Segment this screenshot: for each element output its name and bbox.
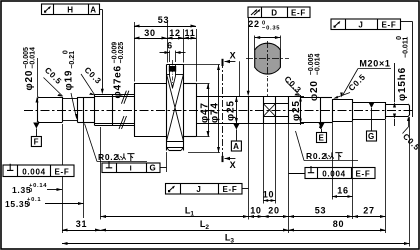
svg-text:φ47e6: φ47e6: [113, 65, 124, 98]
feature frame runout J E-F bottom: [166, 184, 243, 195]
bottom chain row L3: [62, 117, 410, 247]
phi25 section outline: [196, 97, 301, 124]
datum G: [367, 102, 377, 141]
feature frame runout J E-F: [331, 19, 401, 30]
svg-text:C0.5: C0.5: [401, 132, 420, 153]
note R0.2 max right: [296, 131, 359, 161]
svg-text:22: 22: [248, 19, 259, 29]
svg-text:H: H: [67, 6, 73, 15]
svg-text:53: 53: [315, 206, 326, 216]
svg-text:12: 12: [169, 28, 180, 38]
svg-text:G: G: [150, 164, 157, 173]
svg-text:80: 80: [333, 219, 344, 229]
svg-text:C0.5: C0.5: [347, 72, 368, 93]
phi20 section to shoulder: [78, 97, 95, 123]
extension groove to frame: [62, 124, 64, 165]
bottom chain extension lines: [101, 120, 386, 233]
svg-text:φ20: φ20: [24, 70, 35, 91]
phi15h6 section: [353, 102, 386, 120]
break marks on journal: [119, 91, 129, 129]
phi47e6 journal section: [95, 94, 135, 125]
svg-text:−0.21: −0.21: [69, 51, 76, 69]
feature frame runout D E-F: [248, 7, 310, 18]
svg-text:0.004: 0.004: [322, 170, 346, 179]
leader right perp frame: [289, 173, 306, 175]
svg-text:16: 16: [337, 186, 348, 196]
section view center lines: [246, 41, 289, 96]
svg-text:10: 10: [263, 190, 274, 200]
phi74 collar outline: [167, 65, 184, 151]
svg-text:M20×1: M20×1: [359, 59, 390, 69]
bottom chain row 31 L2 80: [62, 177, 386, 234]
thread M20x1 label: [340, 59, 391, 98]
svg-text:0.004: 0.004: [22, 168, 46, 177]
dimension 1.35: [12, 183, 62, 195]
chamfer C0.3 left: [81, 65, 103, 95]
svg-text:D: D: [271, 9, 277, 18]
svg-text:A: A: [233, 142, 239, 151]
bottom chain row L1 10 20 53 27: [101, 206, 386, 219]
dimension phi47e6: [112, 42, 126, 99]
svg-text:30: 30: [144, 28, 155, 38]
svg-text:F: F: [34, 138, 40, 147]
svg-text:10: 10: [250, 206, 261, 216]
chamfer C0.5 tip: [401, 117, 420, 153]
leader from H frame: [100, 9, 104, 94]
dimension phi20 right: [308, 53, 322, 129]
top chain extension lines: [135, 22, 197, 82]
projection line at flat start: [239, 61, 241, 96]
leader from D frame to flat: [247, 18, 250, 97]
svg-text:−0.025: −0.025: [118, 42, 125, 64]
svg-text:E-F: E-F: [382, 21, 397, 30]
phi20 right section: [301, 97, 333, 124]
svg-text:11: 11: [185, 28, 196, 38]
svg-text:−0.011: −0.011: [403, 37, 410, 58]
svg-text:E-F: E-F: [55, 168, 70, 177]
svg-text:E-F: E-F: [223, 185, 238, 194]
dimension 22 across flats: [248, 19, 280, 50]
note R0.2 max left: [85, 124, 148, 163]
svg-text:R0.2: R0.2: [98, 152, 119, 162]
svg-text:2: 2: [205, 224, 209, 231]
svg-text:φ20: φ20: [309, 80, 320, 101]
svg-text:G: G: [368, 132, 375, 141]
dimension phi20 left: [23, 47, 39, 103]
svg-text:27: 27: [363, 206, 374, 216]
section cut line X upper: [223, 51, 237, 157]
milled flat with cross marks: [263, 104, 288, 117]
leader I G frame: [160, 152, 167, 172]
collar flat cross marks: [167, 74, 184, 141]
dimension phi74: [184, 65, 221, 153]
svg-text:φ25: φ25: [291, 100, 302, 121]
datum F: [31, 123, 41, 147]
chamfer C0.3 right: [282, 74, 303, 95]
shaft centerline: [24, 110, 414, 112]
svg-text:R0.2: R0.2: [306, 151, 327, 161]
frame perpendicularity I G: [102, 161, 160, 173]
svg-text:53: 53: [158, 15, 169, 25]
svg-text:3: 3: [230, 238, 234, 245]
dimension 10 flat: [263, 124, 276, 204]
svg-text:J: J: [196, 185, 201, 194]
svg-text:−0.014: −0.014: [30, 47, 37, 69]
svg-text:X: X: [230, 160, 237, 170]
feature frame runout H A: [42, 4, 100, 15]
dimension phi47: [196, 84, 211, 137]
dimension phi25 second: [291, 95, 304, 125]
svg-text:0: 0: [29, 188, 33, 194]
svg-text:−0.014: −0.014: [315, 53, 322, 75]
phi13 end tip: [386, 104, 410, 117]
svg-text:C0.3: C0.3: [282, 74, 303, 95]
svg-text:φ19: φ19: [64, 70, 75, 91]
svg-text:A: A: [90, 6, 96, 15]
phi19 relief groove: [62, 97, 78, 123]
leader bottom J frame: [242, 188, 249, 190]
shaft left end phi20 section: [37, 97, 62, 123]
svg-text:6: 6: [167, 41, 173, 51]
section view circle with flats: [255, 43, 281, 74]
svg-text:1: 1: [190, 211, 194, 218]
dimension phi19: [63, 50, 79, 119]
chamfer C0.5 thread: [333, 72, 367, 98]
chamfer C0.5 left end: [43, 66, 64, 97]
svg-text:J: J: [358, 21, 363, 30]
svg-text:31: 31: [76, 219, 87, 229]
datum E: [317, 123, 327, 143]
svg-text:E: E: [318, 134, 324, 143]
dimension phi25 first: [226, 97, 238, 124]
dimension 16: [332, 122, 353, 219]
dimension 53: [134, 15, 196, 28]
svg-text:E-F: E-F: [291, 9, 306, 18]
svg-text:−0.35: −0.35: [262, 26, 280, 32]
svg-text:C0.3: C0.3: [82, 65, 103, 86]
svg-text:X: X: [230, 51, 237, 61]
section arrow X lower: [223, 156, 237, 170]
phi47 section right of collar: [184, 84, 197, 137]
svg-text:0: 0: [27, 202, 31, 208]
phi47 section left of collar: [134, 84, 167, 137]
svg-text:E-F: E-F: [356, 170, 371, 179]
svg-text:20: 20: [268, 206, 279, 216]
dimensions 30 12 11: [134, 28, 196, 40]
svg-text:φ15h6: φ15h6: [397, 67, 408, 101]
tapped hole in collar: [169, 60, 176, 90]
svg-text:I: I: [130, 164, 133, 173]
dimension 6 tapped hole: [160, 41, 186, 63]
dimension 15.35: [5, 123, 84, 218]
frame perpendicularity 0.004 E-F right: [305, 166, 375, 179]
leader from J frame right: [401, 22, 413, 118]
datum A: [231, 124, 241, 152]
M20x1 thread section: [332, 99, 353, 122]
svg-text:φ74: φ74: [210, 102, 221, 123]
svg-text:C0.5: C0.5: [43, 66, 64, 87]
frame perpendicularity 0.004 E-F left: [3, 164, 74, 177]
dimension phi15h6: [393, 36, 410, 126]
svg-text:φ25: φ25: [226, 100, 237, 121]
